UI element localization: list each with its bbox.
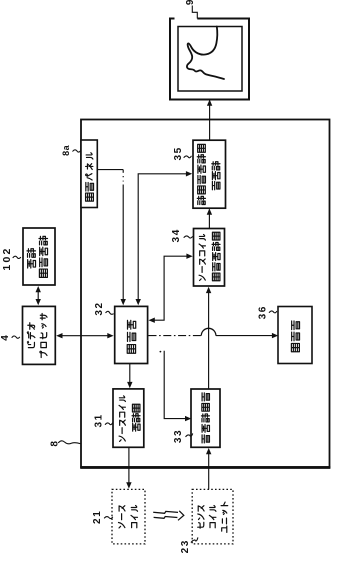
endoscope insertion-shape squiggle on screen: [187, 27, 224, 80]
text 制御部 (control unit): [127, 345, 135, 354]
leader squiggle for 8: [59, 441, 81, 444]
svg-text:102: 102: [1, 246, 13, 270]
svg-text:8: 8: [50, 439, 61, 446]
operation panel box 8a: [81, 140, 97, 208]
leader line from label 9: [192, 6, 197, 19]
leader tilde 36: [269, 311, 276, 313]
monitor 9 outer frame: [170, 19, 249, 100]
source coil drive box 31: [113, 389, 144, 447]
text プロセッサ (processor): [40, 351, 47, 357]
text 記憶装置 (storage device): [39, 269, 47, 277]
leader tilde 4: [12, 336, 20, 338]
text ソース (source): [119, 523, 125, 529]
wire 33 to 34: [208, 292, 210, 389]
text 駆動部 (drive unit): [133, 423, 140, 431]
electromagnetic wave double arrow: [153, 511, 178, 513]
wire 102-4 double arrow: [37, 291, 39, 301]
leader tilde 31: [105, 423, 112, 425]
svg-text:36: 36: [257, 305, 268, 319]
leader tilde 35: [184, 156, 191, 158]
svg-text:31: 31: [93, 413, 104, 427]
text 生成部 (generation unit): [212, 181, 220, 189]
wire 8a to 32 dash-dot: [97, 169, 123, 171]
text 位置解析部 (position analysis unit): [212, 273, 219, 281]
source coil position analysis box 34: [194, 229, 225, 287]
leader tilde 23: [191, 538, 198, 542]
monitor 9 inner screen: [178, 27, 242, 92]
text ソースコイル (source coil) drive: [119, 436, 125, 441]
sense coil unit dashed box 23: [192, 489, 233, 544]
text 挿入形状画像 (insertion shape image): [197, 196, 205, 204]
text コイル (coil): [132, 523, 137, 528]
text ユニット (unit): [222, 526, 227, 532]
wire 4-32 double arrow: [61, 335, 109, 337]
wire elbow: down into 32, right into 35: [138, 174, 187, 300]
svg-text:35: 35: [173, 146, 184, 160]
svg-text:9: 9: [185, 0, 196, 5]
text コイル (coil) unit: [210, 523, 215, 528]
svg-text:32: 32: [94, 301, 105, 315]
control unit box 32: [115, 306, 148, 363]
wire 32 to 31: [129, 364, 131, 384]
external storage box 102: [23, 228, 55, 285]
svg-text:23: 23: [180, 539, 191, 553]
text センス (sense): [198, 522, 204, 528]
text 外部 (external): [28, 260, 36, 268]
scan gap in monitor top edge: [175, 16, 198, 22]
svg-text:33: 33: [173, 429, 184, 443]
thick bottom edge of box 8: [80, 466, 330, 469]
text ソースコイル (source coil): [199, 275, 205, 280]
arrowhead into monitor: [207, 100, 212, 106]
signal detection box 33: [191, 389, 220, 447]
svg-text:4: 4: [0, 334, 11, 341]
leader tilde 32: [106, 311, 114, 314]
leader tilde 34: [184, 236, 192, 238]
wire 32-34 double arrow elbow: [153, 256, 188, 320]
leader tilde 102: [13, 256, 21, 258]
hop over vertical wire: [201, 328, 216, 335]
text 操作パネル (operation panel): [86, 193, 94, 201]
insertion shape image generation box 35: [193, 140, 226, 208]
video processor box 4: [23, 306, 56, 364]
device main-body box 8: [81, 120, 330, 468]
svg-text:34: 34: [171, 228, 182, 242]
text 記憶部 (storage unit): [291, 343, 299, 351]
leader tilde 33: [186, 434, 193, 437]
svg-text:8a: 8a: [61, 144, 71, 156]
source coil dashed box 21: [112, 489, 145, 544]
leader tilde 8a: [73, 150, 81, 152]
wire 32 to 36 dash-dot with hop: [149, 335, 202, 337]
wire 31 to 21: [128, 447, 130, 484]
wire 34 to 35: [208, 210, 210, 229]
wire elbow into 33: [164, 351, 186, 419]
text ビデオ (video): [27, 341, 34, 347]
wire 35 to monitor: [209, 101, 211, 141]
storage box 36: [278, 307, 312, 364]
svg-text:21: 21: [92, 510, 103, 524]
wire 23 to 33: [208, 453, 210, 490]
text 信号検出部 (signal detection unit): [202, 435, 209, 443]
leader tilde 21: [104, 517, 112, 519]
